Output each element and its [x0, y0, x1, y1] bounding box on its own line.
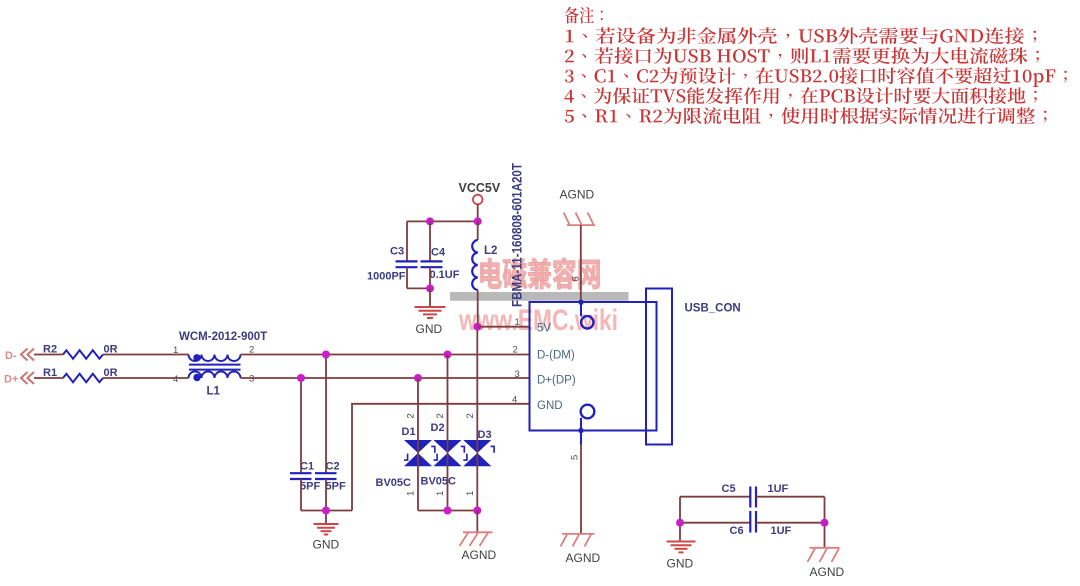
svg-text:6: 6: [571, 276, 582, 281]
ground AGND below USB: [561, 534, 595, 547]
svg-text:FBMA-11-160808-601A20T: FBMA-11-160808-601A20T: [510, 162, 525, 307]
svg-text:1: 1: [406, 491, 417, 496]
svg-text:0.1UF: 0.1UF: [430, 269, 460, 281]
wire C3C4 bottom rail: [407, 287, 430, 289]
svg-text:1000PF: 1000PF: [367, 271, 406, 283]
connector USB_CON box: [530, 302, 657, 431]
wire L1 pin3 to USB pin3 (D+ net): [241, 377, 530, 379]
ground GND (digital) under C1/C2: [314, 524, 339, 535]
junction D2/D-: [444, 351, 452, 359]
junction C4 top: [426, 217, 434, 225]
svg-text:5: 5: [570, 455, 581, 460]
svg-text:AGND: AGND: [560, 188, 595, 202]
svg-text:2: 2: [406, 413, 417, 418]
wire D1 vertical: [417, 378, 419, 511]
wire to GND under C3C4: [429, 288, 431, 306]
svg-text:BV05C: BV05C: [376, 477, 412, 489]
wire GND net to USB pin4: [352, 404, 530, 511]
wire VCC5V down: [477, 204, 479, 221]
svg-text:1: 1: [173, 345, 178, 356]
wire to AGND below TVS: [476, 511, 478, 533]
svg-text:D3: D3: [478, 429, 492, 441]
note line 3: [565, 67, 1067, 87]
svg-text:3: 3: [249, 374, 254, 385]
svg-text:5V: 5V: [537, 323, 551, 335]
note title 备注:: [565, 7, 603, 24]
pin 5 mounting hole: [581, 405, 595, 419]
wire C1/C2 ground rail: [301, 510, 352, 512]
svg-text:VCC5V: VCC5V: [459, 181, 501, 195]
wire C5C6 left leg: [679, 497, 681, 541]
svg-text:C4: C4: [431, 247, 446, 259]
junction D1/D+: [414, 374, 422, 382]
svg-text:D2: D2: [431, 422, 445, 434]
ground AGND right: [808, 548, 840, 562]
svg-text:D+(DP): D+(DP): [537, 375, 576, 387]
note line 4: [565, 87, 1037, 104]
note line 5: [565, 107, 1047, 124]
svg-text:AGND: AGND: [566, 551, 601, 565]
junction C1/D+: [297, 374, 305, 382]
svg-text:BV05C: BV05C: [421, 476, 457, 488]
wire D3 vertical from 5V: [476, 327, 478, 511]
svg-text:C5: C5: [722, 483, 736, 495]
svg-text:D-: D-: [5, 350, 17, 362]
svg-text:USB_CON: USB_CON: [685, 303, 741, 315]
junction C2/D-: [322, 351, 330, 359]
junction C6 right: [821, 519, 829, 527]
svg-text:C6: C6: [730, 525, 744, 537]
wire C5C6 right leg: [824, 497, 826, 548]
note line 2: [565, 47, 1039, 64]
pin 6 mounting hole: [579, 300, 583, 304]
svg-text:AGND: AGND: [462, 548, 497, 562]
gray bar: [450, 292, 629, 301]
junction VCC/L2: [474, 217, 482, 225]
junction C4 bottom: [426, 284, 434, 292]
wire D- to R2: [34, 354, 63, 356]
junction D3 rail: [473, 507, 481, 515]
wire USB pin5 to AGND: [580, 445, 582, 534]
wire C3C4 top rail: [407, 220, 478, 222]
svg-text:D-(DM): D-(DM): [537, 350, 575, 362]
svg-text:4: 4: [173, 374, 178, 385]
svg-text:AGND: AGND: [810, 565, 845, 579]
junction 5V node: [474, 323, 482, 331]
wire L1 pin2 to USB pin2 (D- net): [241, 354, 530, 356]
svg-text:2: 2: [435, 413, 446, 418]
svg-text:1: 1: [435, 491, 446, 496]
connector shield rect: [646, 289, 672, 445]
svg-text:L2: L2: [484, 245, 497, 257]
svg-text:1UF: 1UF: [771, 525, 792, 537]
wire D2 vertical: [447, 355, 449, 511]
wire 5V to USB pin1: [478, 326, 530, 328]
svg-text:3: 3: [515, 369, 520, 380]
wire AGND to USB pin6: [580, 225, 582, 302]
svg-text:2: 2: [465, 413, 476, 418]
svg-text:5PF: 5PF: [326, 481, 346, 493]
svg-text:GND: GND: [667, 557, 694, 571]
junction C1C2 rail: [322, 507, 330, 515]
svg-text:1: 1: [515, 317, 520, 328]
svg-text:D1: D1: [402, 426, 416, 438]
svg-text:1: 1: [465, 491, 476, 496]
note line 1: [566, 27, 1036, 44]
junction C6 left: [676, 519, 684, 527]
svg-text:L1: L1: [207, 386, 221, 398]
svg-text:1UF: 1UF: [768, 483, 789, 495]
svg-text:GND: GND: [537, 400, 563, 412]
svg-text:C2: C2: [326, 461, 340, 473]
svg-text:GND: GND: [313, 538, 340, 552]
ground AGND below TVS: [460, 532, 493, 546]
svg-text:C1: C1: [300, 461, 314, 473]
wire TVS ground rail: [418, 510, 477, 512]
svg-text:C3: C3: [390, 246, 404, 258]
watermark 电磁兼容网: [480, 258, 600, 289]
wire D+ to R1: [34, 377, 63, 379]
svg-text:WCM-2012-900T: WCM-2012-900T: [179, 331, 267, 343]
junction D2 rail: [444, 507, 452, 515]
svg-text:D+: D+: [4, 374, 18, 386]
svg-text:5PF: 5PF: [300, 481, 320, 493]
ground GND under C3C4: [415, 307, 446, 318]
svg-text:GND: GND: [416, 322, 443, 336]
svg-text:4: 4: [512, 395, 517, 406]
svg-text:2: 2: [513, 345, 518, 356]
wire R1 to L1 pin4: [103, 377, 189, 379]
wire R2 to L1 pin1: [103, 354, 189, 356]
ground GND under C5C6: [667, 542, 696, 553]
